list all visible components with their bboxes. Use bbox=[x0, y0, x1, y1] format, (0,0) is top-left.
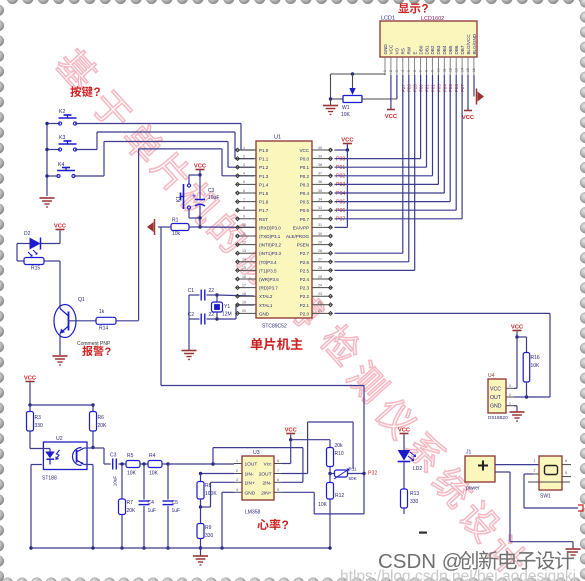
label 单片机主 bbox=[251, 338, 263, 350]
resistor R3 330 bbox=[29, 405, 31, 412]
svg-text:R12: R12 bbox=[335, 493, 344, 499]
wire E-P25 bbox=[414, 75, 416, 270]
svg-text:28: 28 bbox=[318, 249, 322, 253]
svg-text:R6: R6 bbox=[98, 415, 105, 421]
svg-text:2OUT: 2OUT bbox=[259, 472, 272, 478]
svg-text:10K: 10K bbox=[149, 471, 159, 477]
svg-text:2: 2 bbox=[509, 393, 511, 397]
svg-text:5: 5 bbox=[407, 70, 411, 72]
svg-text:P0.2: P0.2 bbox=[300, 174, 310, 179]
svg-text:STC89C52: STC89C52 bbox=[262, 324, 287, 330]
svg-text:C4: C4 bbox=[148, 500, 155, 506]
wire ground rail bbox=[31, 547, 330, 549]
svg-text:VO: VO bbox=[395, 47, 400, 54]
svg-text:6: 6 bbox=[243, 189, 245, 193]
svg-text:10K: 10K bbox=[531, 363, 541, 369]
svg-text:(RXD)P3.0: (RXD)P3.0 bbox=[259, 225, 281, 230]
svg-text:19: 19 bbox=[242, 301, 246, 305]
svg-text:BLG/GND: BLG/GND bbox=[472, 33, 477, 54]
svg-text:2: 2 bbox=[534, 469, 536, 473]
svg-text:J1: J1 bbox=[466, 450, 472, 456]
resistor R9 330 bbox=[200, 507, 202, 524]
power VCC opamp bbox=[286, 433, 295, 435]
svg-text:33: 33 bbox=[318, 206, 322, 210]
resistor R6 20K bbox=[92, 405, 94, 412]
resistor R14 1k bbox=[96, 317, 116, 324]
svg-text:XTAL2: XTAL2 bbox=[259, 294, 273, 299]
svg-text:GND: GND bbox=[490, 404, 502, 410]
svg-text:20K: 20K bbox=[127, 508, 137, 514]
resistor R13 330 bbox=[403, 462, 405, 490]
svg-text:30: 30 bbox=[318, 232, 322, 236]
ground bbox=[566, 548, 581, 550]
svg-text:1: 1 bbox=[243, 146, 245, 150]
svg-text:(WR)P3.6: (WR)P3.6 bbox=[259, 277, 279, 282]
resistor R4 10K bbox=[148, 461, 162, 468]
svg-text:50K: 50K bbox=[349, 476, 358, 481]
svg-text:18: 18 bbox=[242, 292, 246, 296]
wire button bus bbox=[46, 124, 48, 197]
svg-text:P1.1: P1.1 bbox=[259, 157, 269, 162]
optocoupler U2 ST188 bbox=[43, 442, 87, 470]
svg-text:VCC: VCC bbox=[462, 115, 475, 121]
svg-text:10uF: 10uF bbox=[208, 195, 219, 201]
svg-text:22: 22 bbox=[209, 288, 215, 294]
resistor R8 100K bbox=[201, 473, 235, 475]
svg-text:P1.2: P1.2 bbox=[259, 165, 269, 170]
svg-text:3: 3 bbox=[395, 70, 399, 72]
svg-text:10: 10 bbox=[242, 223, 246, 227]
wire P2.0 to U4 bbox=[335, 312, 551, 314]
svg-text:7: 7 bbox=[243, 197, 245, 201]
svg-text:2IN+: 2IN+ bbox=[261, 490, 271, 496]
svg-text:2: 2 bbox=[243, 154, 245, 158]
wire emitter bbox=[59, 334, 61, 356]
svg-text:1IN+: 1IN+ bbox=[245, 480, 255, 486]
svg-text:+: + bbox=[192, 194, 196, 200]
svg-text:27: 27 bbox=[318, 258, 322, 262]
wire LCD pin3 bbox=[396, 75, 398, 99]
svg-text:?: ? bbox=[94, 87, 101, 99]
power VCC LCD pin2 bbox=[390, 75, 392, 109]
resistor R10 20k bbox=[329, 440, 331, 448]
capacitor C5 1uF bbox=[167, 464, 169, 500]
capacitor C4 1uF bbox=[143, 464, 145, 500]
svg-text:P0.7: P0.7 bbox=[300, 217, 310, 222]
ground bbox=[40, 197, 55, 199]
pushbutton K1 bbox=[189, 174, 200, 176]
svg-text:DB4: DB4 bbox=[442, 45, 447, 54]
ground arrow LCD pin16 bbox=[473, 75, 475, 97]
svg-text:R4: R4 bbox=[149, 453, 156, 459]
wire J1 gnd bbox=[495, 471, 510, 473]
svg-text:32: 32 bbox=[318, 215, 322, 219]
wire bbox=[47, 149, 60, 151]
capacitor C3 10uF coupling bbox=[112, 459, 114, 470]
svg-text:K4: K4 bbox=[58, 162, 64, 168]
svg-text:P2.4: P2.4 bbox=[300, 277, 310, 282]
power VCC LCD pin15 bbox=[467, 75, 469, 110]
svg-text:38: 38 bbox=[318, 163, 322, 167]
U1 pins left bbox=[236, 149, 256, 151]
svg-text:P0.5: P0.5 bbox=[300, 200, 310, 205]
svg-text:?: ? bbox=[282, 518, 289, 532]
svg-text:RST: RST bbox=[259, 217, 268, 222]
svg-text:8: 8 bbox=[243, 206, 245, 210]
svg-text:P1.7: P1.7 bbox=[259, 208, 269, 213]
svg-text:10: 10 bbox=[437, 68, 441, 72]
wire to P32 node bbox=[160, 227, 162, 385]
wire RST bbox=[200, 226, 254, 228]
capacitor C1 22 bbox=[189, 294, 200, 296]
svg-text:16: 16 bbox=[242, 275, 246, 279]
svg-text:24: 24 bbox=[318, 283, 322, 287]
MCU U1 STC89C52 bbox=[256, 141, 312, 318]
svg-text:16: 16 bbox=[472, 68, 476, 72]
svg-text:10K: 10K bbox=[341, 112, 351, 118]
svg-text:VCC: VCC bbox=[285, 427, 298, 433]
wire VCC to R10 bbox=[291, 439, 330, 441]
resistor R1 10k bbox=[171, 224, 189, 231]
svg-text:P0.0: P0.0 bbox=[300, 157, 310, 162]
svg-text:9: 9 bbox=[431, 70, 435, 72]
label 按键? bbox=[70, 86, 81, 97]
svg-text:12: 12 bbox=[242, 240, 246, 244]
svg-text:25: 25 bbox=[318, 275, 322, 279]
svg-text:U2: U2 bbox=[56, 436, 63, 442]
svg-text:P2.1: P2.1 bbox=[300, 303, 310, 308]
svg-text:(INT1)P3.3: (INT1)P3.3 bbox=[259, 251, 282, 256]
svg-text:22: 22 bbox=[209, 312, 215, 318]
svg-text:Vcc: Vcc bbox=[264, 462, 273, 468]
power VCC bbox=[56, 229, 65, 231]
svg-text:20: 20 bbox=[242, 309, 246, 313]
svg-text:?: ? bbox=[422, 4, 429, 16]
wire U3 pin8 bbox=[290, 440, 292, 464]
svg-text:P1.3: P1.3 bbox=[259, 174, 269, 179]
svg-text:R5: R5 bbox=[127, 453, 134, 459]
svg-text:1OUT: 1OUT bbox=[245, 462, 258, 468]
svg-text:ALE/PROG: ALE/PROG bbox=[286, 234, 310, 239]
svg-text:(TXD)P3.1: (TXD)P3.1 bbox=[259, 234, 281, 239]
svg-text:P1.5: P1.5 bbox=[259, 191, 269, 196]
svg-text:VCC: VCC bbox=[490, 386, 501, 392]
wire U3 pin5 bbox=[282, 491, 314, 493]
svg-text:DB5: DB5 bbox=[448, 45, 453, 54]
svg-text:10k: 10k bbox=[172, 231, 181, 237]
svg-text:P2.2: P2.2 bbox=[300, 294, 310, 299]
svg-text:P2.7: P2.7 bbox=[300, 251, 310, 256]
svg-text:22: 22 bbox=[318, 301, 322, 305]
svg-text:12M: 12M bbox=[222, 312, 232, 318]
svg-text:P0.4: P0.4 bbox=[300, 191, 310, 196]
svg-text:15: 15 bbox=[242, 266, 246, 270]
svg-text:11: 11 bbox=[242, 232, 246, 236]
svg-text:P0.1: P0.1 bbox=[300, 165, 310, 170]
svg-text:RW: RW bbox=[407, 46, 412, 54]
svg-text:DB3: DB3 bbox=[436, 45, 441, 54]
svg-text:31: 31 bbox=[318, 223, 322, 227]
svg-text:P05: P05 bbox=[336, 199, 345, 205]
svg-text:4: 4 bbox=[243, 172, 245, 176]
svg-text:R3: R3 bbox=[35, 415, 42, 421]
svg-text:21: 21 bbox=[318, 309, 322, 313]
svg-text:DB7: DB7 bbox=[460, 45, 465, 54]
label 显示? bbox=[398, 3, 409, 13]
svg-text:1: 1 bbox=[534, 459, 536, 463]
svg-text:(T0)P3.4: (T0)P3.4 bbox=[259, 260, 277, 265]
svg-text:1k: 1k bbox=[99, 309, 105, 315]
wire J1 to SW1 bbox=[495, 464, 539, 466]
svg-text:Q1: Q1 bbox=[78, 297, 85, 303]
svg-text:XTAL1: XTAL1 bbox=[259, 303, 273, 308]
svg-text:1: 1 bbox=[236, 459, 238, 463]
svg-text:29: 29 bbox=[318, 240, 322, 244]
svg-text:6: 6 bbox=[413, 70, 417, 72]
wire bbox=[199, 218, 201, 227]
wire bbox=[59, 261, 61, 309]
svg-text:2: 2 bbox=[236, 469, 238, 473]
svg-text:K2: K2 bbox=[59, 109, 65, 115]
ground U4 bbox=[514, 405, 517, 407]
resistor R5 10K bbox=[126, 461, 140, 468]
svg-text:5: 5 bbox=[277, 488, 279, 492]
resistor R7 20K bbox=[121, 464, 123, 499]
U1 pins right bbox=[312, 149, 333, 151]
svg-text:330: 330 bbox=[410, 499, 419, 505]
svg-text:P02: P02 bbox=[336, 174, 345, 180]
svg-text:P03: P03 bbox=[336, 182, 345, 188]
svg-text:ST188: ST188 bbox=[42, 476, 57, 482]
wire base bbox=[69, 320, 97, 322]
watermark dash bbox=[419, 532, 427, 534]
wire bbox=[188, 295, 190, 350]
svg-text:P0.6: P0.6 bbox=[300, 208, 310, 213]
svg-text:5: 5 bbox=[243, 180, 245, 184]
svg-text:K3: K3 bbox=[59, 135, 65, 141]
svg-text:VCC: VCC bbox=[299, 148, 309, 153]
svg-text:20k: 20k bbox=[335, 443, 344, 449]
svg-text:23: 23 bbox=[318, 292, 322, 296]
svg-text:C3: C3 bbox=[208, 188, 215, 194]
svg-text:2IN-: 2IN- bbox=[262, 480, 271, 486]
watermark diagonal text bbox=[54, 45, 102, 93]
transistor Q1 bbox=[54, 305, 76, 338]
wire RW-P26 bbox=[408, 75, 410, 262]
svg-text:DB6: DB6 bbox=[454, 45, 459, 54]
resistor R12 10K bbox=[329, 474, 331, 483]
pushbutton K3 bbox=[58, 148, 61, 151]
connector J1 power bbox=[465, 456, 495, 482]
svg-text:36: 36 bbox=[318, 180, 322, 184]
svg-text:100K: 100K bbox=[205, 491, 217, 497]
ground bbox=[53, 355, 68, 357]
svg-text:1uF: 1uF bbox=[172, 508, 181, 514]
svg-text:DB2: DB2 bbox=[430, 45, 435, 54]
ground bbox=[200, 548, 202, 556]
svg-text:R11: R11 bbox=[349, 467, 358, 472]
svg-text:P2.6: P2.6 bbox=[300, 260, 310, 265]
svg-text:R9: R9 bbox=[205, 525, 212, 531]
svg-text:15: 15 bbox=[466, 68, 470, 72]
wire bbox=[47, 123, 60, 125]
svg-text:1uF: 1uF bbox=[148, 508, 157, 514]
svg-text:DB0: DB0 bbox=[418, 45, 423, 54]
svg-text:P2.3: P2.3 bbox=[300, 286, 310, 291]
svg-text:5: 5 bbox=[565, 471, 567, 475]
power VCC heart bbox=[26, 381, 35, 383]
svg-text:VCC: VCC bbox=[398, 427, 411, 433]
svg-text:R15: R15 bbox=[31, 266, 40, 272]
svg-text:htlps:/blog.csdn.nel/bei aodes: htlps:/blog.csdn.nel/bei aodesignkj bbox=[340, 568, 576, 581]
svg-text:26: 26 bbox=[318, 266, 322, 270]
svg-text:330: 330 bbox=[35, 423, 44, 429]
wire U3 pin6 bbox=[282, 481, 303, 483]
svg-text:R14: R14 bbox=[99, 326, 108, 332]
svg-text:330: 330 bbox=[205, 533, 214, 539]
svg-text:OUT: OUT bbox=[490, 395, 502, 401]
svg-text:(RD)P3.7: (RD)P3.7 bbox=[259, 286, 278, 291]
svg-text:8: 8 bbox=[277, 459, 279, 463]
capacitor C3 10uF bbox=[199, 175, 201, 199]
svg-text:GND: GND bbox=[383, 44, 388, 55]
svg-text:W1: W1 bbox=[342, 105, 350, 111]
svg-text:DS18B20: DS18B20 bbox=[488, 415, 508, 420]
svg-text:P06: P06 bbox=[336, 208, 345, 214]
svg-text:GND: GND bbox=[259, 311, 270, 316]
svg-text:VCC: VCC bbox=[511, 324, 524, 330]
wire bbox=[47, 175, 59, 177]
wire U3 pin7 out bbox=[282, 473, 308, 475]
ground bbox=[182, 350, 197, 352]
power VCC LED bbox=[400, 433, 409, 435]
svg-text:17: 17 bbox=[242, 283, 246, 287]
svg-text:12: 12 bbox=[448, 68, 452, 72]
svg-text:1IN-: 1IN- bbox=[245, 472, 254, 478]
svg-text:P32: P32 bbox=[368, 471, 377, 477]
svg-text:3: 3 bbox=[243, 163, 245, 167]
ground arrow bbox=[147, 222, 154, 232]
diode D2 bbox=[41, 243, 60, 245]
wire opamp out to trimmer bbox=[307, 422, 309, 474]
wire U4 out bbox=[514, 396, 527, 398]
wire U2 pins bbox=[31, 448, 50, 450]
svg-text:Y1: Y1 bbox=[224, 304, 230, 310]
svg-text:4: 4 bbox=[236, 488, 238, 492]
wire SW1 out bbox=[524, 473, 533, 475]
power VCC reset bbox=[199, 170, 201, 175]
svg-text:VCC: VCC bbox=[385, 114, 398, 120]
wire RS-P27 bbox=[402, 75, 404, 253]
svg-text:10K: 10K bbox=[318, 502, 328, 508]
crystal Y1 12M bbox=[216, 295, 218, 302]
trimmer R11 50K bbox=[330, 473, 335, 475]
svg-text:39: 39 bbox=[318, 154, 322, 158]
svg-text:U1: U1 bbox=[274, 135, 281, 141]
svg-text:2: 2 bbox=[389, 70, 393, 72]
svg-text:U3: U3 bbox=[253, 450, 260, 456]
wire U3 pin3 pin4 bbox=[211, 481, 235, 483]
capacitor C2 22 bbox=[189, 318, 200, 320]
power VCC U1 bbox=[335, 149, 348, 151]
svg-text:P07: P07 bbox=[336, 217, 345, 223]
photoresistor R15 bbox=[24, 258, 44, 265]
svg-text:P1.6: P1.6 bbox=[259, 200, 269, 205]
svg-text:U4: U4 bbox=[488, 373, 495, 379]
svg-text:R1: R1 bbox=[172, 218, 179, 224]
svg-text:4: 4 bbox=[401, 70, 405, 72]
svg-text:P00: P00 bbox=[336, 156, 345, 162]
svg-text:(T1)P3.5: (T1)P3.5 bbox=[259, 268, 277, 273]
wire EA bbox=[346, 150, 348, 227]
svg-text:E: E bbox=[412, 51, 417, 54]
svg-text:R10: R10 bbox=[335, 451, 344, 457]
wires DB0-DB7 to P00-P07 bbox=[420, 75, 422, 159]
svg-text:power: power bbox=[466, 486, 480, 492]
svg-text:1: 1 bbox=[509, 402, 511, 406]
svg-text:P04: P04 bbox=[336, 191, 345, 197]
svg-text:VCC: VCC bbox=[341, 137, 354, 143]
svg-text:14: 14 bbox=[460, 68, 464, 72]
svg-text:P2.0: P2.0 bbox=[300, 311, 310, 316]
wire R14 to P1.3 bbox=[138, 149, 140, 321]
svg-text:6: 6 bbox=[565, 459, 567, 463]
svg-text:RS: RS bbox=[401, 48, 406, 54]
svg-text:7: 7 bbox=[277, 469, 279, 473]
svg-text:SW1: SW1 bbox=[540, 494, 551, 500]
svg-text:1: 1 bbox=[383, 70, 387, 72]
svg-text:?: ? bbox=[105, 346, 112, 358]
svg-text:LD2: LD2 bbox=[413, 466, 422, 472]
svg-text:13: 13 bbox=[242, 249, 246, 253]
svg-text:GND: GND bbox=[245, 490, 256, 496]
svg-text:R13: R13 bbox=[410, 491, 419, 497]
svg-text:11: 11 bbox=[443, 68, 447, 72]
resistor R16 10K bbox=[517, 336, 527, 338]
pushbutton K4 bbox=[57, 174, 60, 177]
svg-text:34: 34 bbox=[318, 197, 322, 201]
potentiometer W1 10K bbox=[351, 72, 354, 75]
switch SW1 bbox=[539, 456, 562, 490]
svg-text:P1.4: P1.4 bbox=[259, 182, 269, 187]
net tag bbox=[578, 505, 583, 511]
svg-text:10K: 10K bbox=[127, 471, 137, 477]
svg-text:13: 13 bbox=[454, 68, 458, 72]
label 报警? bbox=[82, 346, 92, 356]
svg-text:VCC: VCC bbox=[194, 163, 207, 169]
svg-text:C1: C1 bbox=[188, 288, 195, 294]
svg-text:K1: K1 bbox=[176, 196, 182, 202]
wire LCD pin1 gnd bbox=[384, 74, 386, 75]
power VCC U4 bbox=[513, 330, 522, 332]
svg-text:37: 37 bbox=[318, 172, 322, 176]
svg-text:40: 40 bbox=[318, 146, 322, 150]
svg-text:8: 8 bbox=[425, 70, 429, 72]
svg-text:DB1: DB1 bbox=[424, 45, 429, 54]
svg-text:P1.0: P1.0 bbox=[259, 148, 269, 153]
sensor U4 DS18B20 bbox=[516, 337, 518, 388]
svg-text:VCC: VCC bbox=[24, 375, 37, 381]
svg-text:6: 6 bbox=[277, 478, 279, 482]
svg-text:14: 14 bbox=[242, 258, 246, 262]
svg-text:VCC: VCC bbox=[389, 44, 394, 54]
ground bbox=[330, 99, 332, 106]
svg-text:P0.3: P0.3 bbox=[300, 182, 310, 187]
op-amp U3 LM358 bbox=[242, 456, 274, 500]
wire bbox=[168, 463, 234, 465]
svg-text:D2: D2 bbox=[24, 231, 31, 237]
svg-text:3: 3 bbox=[236, 478, 238, 482]
